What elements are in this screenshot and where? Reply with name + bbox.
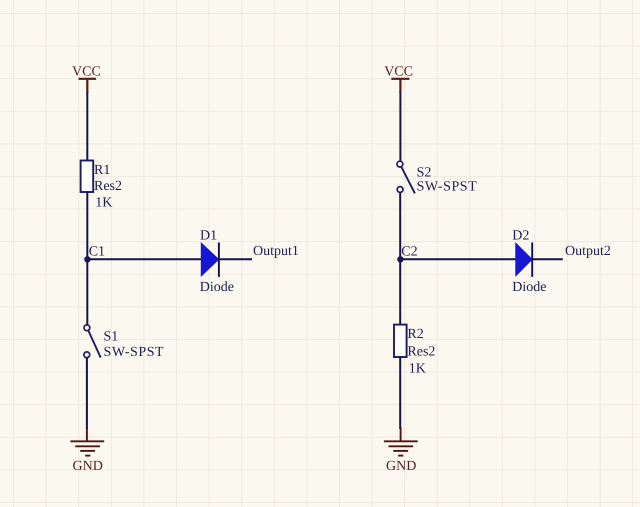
svg-text:Diode: Diode: [200, 280, 234, 295]
power symbol VCC right: [391, 79, 409, 93]
wire VCC to S2: [399, 92, 401, 161]
net label VCC left: [72, 65, 101, 80]
wire VCC to R1: [86, 92, 88, 161]
wire S1 to GND left: [86, 358, 88, 429]
net label C2: [401, 245, 417, 260]
ground symbol GND left: [70, 427, 104, 456]
svg-text:SW-SPST: SW-SPST: [104, 345, 165, 360]
svg-text:R1: R1: [94, 163, 110, 178]
svg-text:1K: 1K: [95, 196, 112, 211]
svg-text:S2: S2: [417, 166, 432, 181]
designator label R1: [94, 163, 110, 178]
resistor R2: [394, 325, 407, 357]
power symbol VCC left: [79, 79, 97, 93]
net label Output2: [565, 244, 611, 259]
svg-text:1K: 1K: [409, 362, 426, 377]
svg-text:GND: GND: [73, 459, 103, 474]
svg-text:VCC: VCC: [72, 65, 101, 80]
wire S2 to node C2: [399, 192, 401, 259]
svg-text:Output1: Output1: [253, 244, 299, 259]
diode D1: [201, 243, 219, 277]
svg-text:D1: D1: [200, 229, 217, 244]
svg-text:S1: S1: [104, 330, 119, 345]
wire node C2 to R2: [399, 259, 401, 325]
svg-text:GND: GND: [386, 459, 416, 474]
net label C1: [89, 245, 105, 260]
ground symbol GND right: [384, 427, 418, 456]
value label Res2 (R2): [407, 345, 435, 360]
svg-text:C2: C2: [401, 245, 417, 260]
value label Res2 (R1): [94, 179, 122, 194]
designator label R2: [407, 327, 423, 342]
designator label D2: [512, 229, 529, 244]
value label SW-SPST (S2): [417, 180, 478, 195]
svg-text:C1: C1: [89, 245, 105, 260]
wire D2 cathode to Output2: [532, 258, 563, 260]
node C2 junction: [397, 256, 403, 262]
designator label S1: [104, 330, 119, 345]
node C1 junction: [84, 256, 90, 262]
svg-text:SW-SPST: SW-SPST: [417, 180, 478, 195]
wire R1 to node C1: [86, 192, 88, 259]
net label GND left: [73, 459, 103, 474]
wire node C2 to D2 anode: [400, 258, 516, 260]
diode D2: [516, 243, 532, 277]
wire node C1 to D1 anode: [87, 258, 201, 260]
svg-text:VCC: VCC: [384, 65, 413, 80]
wire R2 to GND right: [399, 357, 401, 429]
designator label D1: [200, 229, 217, 244]
net label GND right: [386, 459, 416, 474]
wire D1 cathode to Output1: [219, 258, 252, 260]
svg-text:Diode: Diode: [512, 280, 546, 295]
net label Output1: [253, 244, 299, 259]
svg-text:Output2: Output2: [565, 244, 611, 259]
svg-text:Res2: Res2: [94, 179, 122, 194]
value label Diode (D1): [200, 280, 234, 295]
switch S1: [84, 325, 101, 358]
net label VCC right: [384, 65, 413, 80]
wire node C1 to S1: [86, 259, 88, 325]
switch S2: [397, 161, 415, 193]
designator label S2: [417, 166, 432, 181]
svg-text:R2: R2: [407, 327, 423, 342]
value label 1K (R1): [95, 196, 112, 211]
value label Diode (D2): [512, 280, 546, 295]
value label SW-SPST (S1): [104, 345, 165, 360]
value label 1K (R2): [409, 362, 426, 377]
resistor R1: [81, 161, 94, 193]
svg-text:Res2: Res2: [407, 345, 435, 360]
svg-text:D2: D2: [512, 229, 529, 244]
